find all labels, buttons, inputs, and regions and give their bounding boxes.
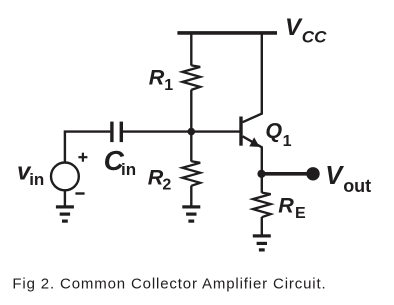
- svg-text:1: 1: [283, 133, 292, 150]
- svg-text:1: 1: [164, 77, 173, 94]
- label Q1: [265, 119, 291, 151]
- resistor R1: [182, 65, 200, 90]
- wire R1 bottom: [190, 90, 192, 133]
- svg-text:E: E: [295, 205, 306, 222]
- wire R2 to ground: [190, 186, 192, 206]
- wire emitter to RE: [261, 174, 263, 193]
- svg-text:Q: Q: [265, 119, 282, 143]
- label Vout: [325, 162, 371, 196]
- output terminal dot: [306, 167, 319, 180]
- capacitor Cin: [112, 122, 121, 143]
- label R2: [148, 165, 172, 193]
- svg-text:V: V: [325, 162, 344, 190]
- wire capacitor to base: [123, 130, 240, 132]
- svg-text:R: R: [148, 165, 164, 189]
- ground (RE): [253, 234, 271, 251]
- svg-text:R: R: [149, 65, 165, 89]
- minus sign: [75, 192, 84, 194]
- label vin: [17, 158, 44, 189]
- svg-text:in: in: [29, 170, 44, 189]
- svg-text:2: 2: [162, 177, 171, 194]
- svg-text:R: R: [278, 193, 294, 217]
- wire R1 top: [190, 33, 192, 66]
- transistor Q1 collector: [243, 34, 262, 122]
- resistor R2: [182, 161, 200, 186]
- VCC rail: [177, 31, 277, 35]
- transistor Q1 emitter: [243, 136, 262, 174]
- svg-text:CC: CC: [302, 27, 327, 46]
- label RE: [278, 193, 306, 222]
- wire output: [262, 172, 313, 176]
- plus sign: [78, 153, 87, 162]
- svg-text:Fig 2. Common Collector Amplif: Fig 2. Common Collector Amplifier Circui…: [12, 276, 326, 293]
- source vin circle: [51, 163, 79, 191]
- resistor RE: [253, 193, 271, 218]
- node junction emitter: [257, 170, 265, 178]
- label VCC: [285, 14, 327, 46]
- ground (vin): [56, 205, 74, 222]
- transistor Q1 base bar: [239, 117, 242, 146]
- wire RE to ground: [261, 217, 263, 235]
- svg-text:out: out: [343, 176, 371, 196]
- label Cin: [104, 145, 137, 179]
- transistor Q1 emitter arrow: [249, 137, 259, 147]
- wire R2 branch: [190, 132, 192, 162]
- wire vin to capacitor: [65, 132, 111, 163]
- wire vin to ground: [64, 190, 66, 206]
- label R1: [149, 65, 173, 94]
- node junction base: [188, 128, 196, 136]
- svg-text:in: in: [121, 160, 136, 179]
- svg-text:V: V: [285, 14, 303, 41]
- ground (R2): [182, 205, 200, 222]
